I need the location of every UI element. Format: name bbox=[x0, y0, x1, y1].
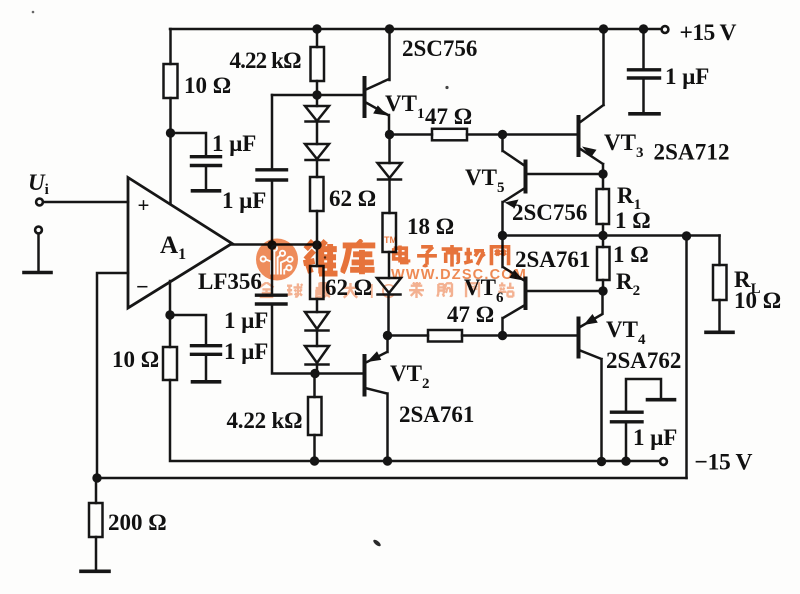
node R2 bottom / VT6 base / VT4 emitter bbox=[598, 286, 607, 295]
ground under C-A bbox=[193, 189, 220, 193]
wire D1-D2 bbox=[316, 122, 319, 144]
arrow VT1 emitter bbox=[373, 105, 387, 115]
node bias mid bbox=[312, 240, 321, 249]
svg-text:1 μF: 1 μF bbox=[665, 64, 709, 89]
transistor VT5 emitter bbox=[503, 188, 526, 236]
wire cap F bottom to -15 rail bbox=[625, 422, 628, 461]
node VT1 base row bbox=[312, 90, 321, 99]
node C mid output bbox=[267, 240, 276, 249]
svg-text:10 Ω: 10 Ω bbox=[734, 288, 781, 313]
diode D2 bbox=[305, 144, 329, 160]
svg-text:1 Ω: 1 Ω bbox=[615, 208, 651, 233]
scan speck bottom middle bbox=[372, 539, 382, 548]
svg-text:1 Ω: 1 Ω bbox=[613, 242, 649, 267]
node VT2 emitter / 47 lower bbox=[383, 331, 392, 340]
resistor 4.22kohm top bbox=[311, 47, 325, 81]
wire 47 lower to VT4 base bbox=[462, 334, 577, 337]
transistor Q VT1 bar bbox=[363, 78, 367, 116]
wire V- pin of op-amp bbox=[169, 281, 172, 315]
svg-text:TM: TM bbox=[384, 235, 397, 245]
resistor RL bbox=[713, 265, 727, 300]
wire VT5 base bbox=[527, 173, 603, 176]
diode D-B bbox=[377, 278, 401, 295]
terminal Ui bbox=[36, 199, 43, 206]
transistor VT1 emitter bbox=[365, 102, 389, 135]
wire D-A to 18ohm bbox=[388, 180, 391, 213]
wire VT1 base row bbox=[272, 94, 363, 97]
arrow VT3 emitter (PNP, toward bar) bbox=[582, 147, 597, 158]
svg-text:VT5: VT5 bbox=[465, 165, 504, 196]
node VT1 emitter / 47ohm bbox=[385, 130, 394, 139]
svg-text:VT3: VT3 bbox=[604, 130, 643, 161]
svg-text:I: I bbox=[369, 281, 375, 303]
svg-text:4.22 kΩ: 4.22 kΩ bbox=[227, 408, 303, 433]
scan speck left margin bbox=[32, 11, 35, 14]
transistor VT5 collector bbox=[503, 135, 526, 167]
svg-text:R2: R2 bbox=[616, 269, 640, 299]
svg-text:WWW.DZSC.COM: WWW.DZSC.COM bbox=[391, 267, 527, 283]
arrow VT6 emitter (PNP toward bar) bbox=[509, 270, 523, 281]
wire to capacitor C-D bbox=[170, 315, 206, 345]
node VT2 base row / 4.22k lower bbox=[310, 369, 319, 378]
wire to 4.22k lower bbox=[313, 374, 316, 398]
node 47ohm/VT5 collector/VT3 base bbox=[498, 130, 507, 139]
svg-text:VT2: VT2 bbox=[390, 361, 429, 392]
scan speck near 10ohm label bbox=[445, 86, 448, 89]
transistor VT3 emitter bbox=[579, 148, 603, 174]
node rail/4.22k bbox=[312, 24, 321, 33]
transistor VT1 collector bbox=[365, 29, 390, 90]
resistor 47ohm top bbox=[432, 129, 467, 141]
svg-text:62 Ω: 62 Ω bbox=[329, 186, 376, 211]
node feedback/200ohm bbox=[92, 473, 101, 482]
node 4.22k on rail bbox=[310, 456, 319, 465]
node VT6 collector / 47ohm lower / VT4 base bbox=[498, 331, 507, 340]
wire output to RL bbox=[718, 236, 721, 266]
svg-text:200 Ω: 200 Ω bbox=[108, 510, 167, 535]
transistor VT4 emitter bbox=[580, 291, 603, 327]
transistor VT3 bar bbox=[577, 117, 581, 155]
svg-text:−: − bbox=[136, 274, 149, 299]
ground under C-D bbox=[193, 380, 220, 384]
diode D1 bbox=[305, 106, 329, 122]
resistor 10ohm top-left bbox=[164, 64, 178, 98]
wire cap A to ground bbox=[205, 166, 208, 190]
resistor 10ohm lower bbox=[163, 347, 177, 380]
wire D2 to 62ohm bbox=[316, 161, 319, 178]
wire D4 to VT2 base row bbox=[316, 365, 319, 374]
wire top-left drop to R 10ohm bbox=[169, 29, 172, 64]
wire 62ohm to op-amp output node bbox=[316, 211, 319, 245]
transistor VT2 emitter bbox=[365, 336, 388, 364]
wire drop rail to 4.22k bbox=[316, 29, 319, 47]
transistor VT3 collector bbox=[579, 29, 604, 123]
node cap E rail bbox=[639, 24, 648, 33]
wire cap E to ground bbox=[642, 78, 645, 112]
svg-text:10 Ω: 10 Ω bbox=[112, 347, 159, 372]
transistor VT6 emitter bbox=[503, 236, 526, 282]
wire D-B to lower 47 row bbox=[387, 296, 390, 336]
capacitor 1uF (C-A) bbox=[192, 157, 221, 166]
wire 10ohm lower to -15 rail bbox=[170, 380, 660, 461]
svg-text:VT4: VT4 bbox=[606, 317, 646, 348]
wire 4.22k lower to -15 rail bbox=[313, 435, 316, 461]
wire lower 47 row bbox=[388, 334, 429, 337]
resistor R2 bbox=[597, 247, 610, 280]
arrow VT2 emitter (PNP toward bar) bbox=[367, 351, 381, 362]
ground under RL bbox=[706, 330, 733, 334]
svg-text:2SA761: 2SA761 bbox=[399, 402, 474, 427]
transistor VT4 bar bbox=[577, 319, 581, 357]
terminal Ui ground side bbox=[35, 227, 42, 234]
transistor VT2 collector bbox=[365, 388, 388, 461]
node cap F rail bbox=[621, 457, 630, 466]
node VT2 collector rail bbox=[383, 456, 392, 465]
wire 200ohm leads bbox=[95, 478, 98, 570]
capacitor 1uF (C-B) bbox=[257, 170, 287, 180]
svg-text:VT1: VT1 bbox=[385, 91, 424, 122]
wire R1 leads bbox=[602, 178, 605, 236]
ground under C-E bbox=[630, 112, 659, 116]
capacitor 1uF (C-D) bbox=[192, 346, 221, 355]
node output feedback tap bbox=[682, 231, 691, 240]
svg-text:2SC756: 2SC756 bbox=[512, 200, 587, 225]
arrow VT5 emitter (NPN, outward) bbox=[505, 200, 519, 209]
transistor VT5 bar bbox=[524, 162, 528, 192]
node VT4 collector rail bbox=[597, 457, 606, 466]
svg-text:47 Ω: 47 Ω bbox=[425, 104, 472, 129]
ground under 200ohm bbox=[81, 569, 109, 573]
watermark big text wei ku bbox=[303, 241, 337, 274]
ground under input terminal bbox=[24, 271, 51, 275]
svg-text:1 μF: 1 μF bbox=[224, 339, 268, 364]
resistor R1 bbox=[597, 189, 610, 224]
diode D-A bbox=[378, 163, 402, 180]
node V- bypass junction bbox=[165, 310, 174, 319]
capacitor 1uF (C-E) bbox=[629, 70, 660, 78]
node output row R1R2 bbox=[598, 231, 607, 240]
watermark slogan row bbox=[259, 282, 514, 298]
wire op-amp output bbox=[232, 243, 317, 246]
transistor VT6 collector bbox=[503, 305, 526, 336]
watermark logo disc bbox=[256, 239, 298, 281]
arrow VT4 emitter (PNP toward bar) bbox=[584, 314, 598, 325]
wire C-C down to VT2 base row bbox=[272, 304, 363, 374]
wire R2 leads bbox=[602, 236, 605, 292]
wire V+ pin of op-amp bbox=[169, 98, 172, 204]
wire feedback bottom row bbox=[97, 477, 687, 480]
wire left bias branch upper bbox=[271, 95, 274, 169]
wire feedback right riser bbox=[685, 236, 688, 478]
wire VT6 base bbox=[527, 290, 603, 293]
svg-text:A1: A1 bbox=[160, 232, 186, 263]
svg-text:4.22 kΩ: 4.22 kΩ bbox=[230, 48, 302, 73]
node VT1 collector rail bbox=[385, 24, 394, 33]
wire cap D to ground bbox=[205, 355, 208, 381]
svg-text:2SC756: 2SC756 bbox=[402, 36, 477, 61]
svg-text:1 μF: 1 μF bbox=[212, 131, 256, 156]
wire to capacitor C-A bbox=[171, 133, 207, 156]
wire 18ohm to D-B bbox=[388, 252, 391, 278]
resistor 62ohm upper bbox=[310, 177, 324, 211]
resistor 47ohm lower bbox=[428, 330, 462, 342]
resistor 200ohm bbox=[89, 503, 103, 537]
ground of cap F bbox=[648, 398, 675, 402]
op-amp A1 triangle bbox=[128, 178, 232, 309]
wire output row bbox=[503, 234, 720, 237]
terminal +15V bbox=[662, 26, 669, 33]
wire RL to ground bbox=[718, 300, 721, 331]
svg-text:10 Ω: 10 Ω bbox=[184, 73, 231, 98]
node output row left bbox=[498, 231, 507, 240]
watermark big text dian zi shi chang wang bbox=[394, 245, 409, 262]
wire 4.22k to node bbox=[316, 81, 319, 95]
node V+ bypass junction bbox=[166, 128, 175, 137]
wire rail to cap E bbox=[642, 29, 645, 69]
wire terminal to ground bbox=[37, 234, 40, 271]
svg-text:C: C bbox=[381, 281, 395, 303]
transistor VT4 collector bbox=[579, 350, 602, 462]
svg-text:LF356: LF356 bbox=[198, 269, 262, 294]
wire V- to 10ohm lower bbox=[169, 315, 172, 347]
svg-text:47 Ω: 47 Ω bbox=[447, 302, 494, 327]
wire 18ohm column top bbox=[388, 135, 391, 164]
wire diode column D1-D2 bbox=[316, 95, 319, 106]
transistor VT6 bar bbox=[524, 279, 528, 309]
capacitor 1uF (C-F) bbox=[612, 412, 643, 422]
svg-text:+15 V: +15 V bbox=[680, 20, 737, 46]
terminal -15V bbox=[660, 458, 667, 465]
svg-text:2SA712: 2SA712 bbox=[654, 140, 730, 165]
wire +15V top rail bbox=[170, 28, 661, 31]
wire to 62ohm lower bbox=[316, 245, 319, 266]
scan speck mid bbox=[324, 256, 326, 258]
watermark logo circuit tree bbox=[261, 246, 293, 275]
svg-text:−15 V: −15 V bbox=[695, 450, 753, 476]
svg-text:Ui: Ui bbox=[28, 170, 49, 198]
svg-text:1 μF: 1 μF bbox=[222, 188, 266, 213]
resistor 18ohm bbox=[383, 213, 397, 252]
resistor 62ohm lower bbox=[310, 266, 324, 299]
wire -input bbox=[97, 273, 128, 478]
wire cap F top to ground bbox=[626, 379, 661, 412]
wire 62ohm to D3 bbox=[316, 299, 319, 312]
wire VT3 base bbox=[503, 133, 578, 136]
svg-text:2SA762: 2SA762 bbox=[606, 348, 681, 373]
wire D3-D4 bbox=[316, 331, 319, 346]
node VT3 emitter / R1 / VT5 base bbox=[598, 169, 607, 178]
capacitor 1uF (C-C) bbox=[257, 295, 287, 304]
diode D3 bbox=[305, 312, 329, 331]
svg-text:1 μF: 1 μF bbox=[224, 308, 268, 333]
wire 47ohm to node bbox=[467, 133, 503, 136]
wire output node down to C-C bbox=[271, 245, 274, 295]
wire 47ohm row top bbox=[390, 133, 433, 136]
resistor 4.22kohm lower bbox=[308, 397, 322, 435]
svg-text:18 Ω: 18 Ω bbox=[407, 214, 454, 239]
diode D4 bbox=[305, 346, 329, 365]
transistor VT2 bar bbox=[363, 356, 367, 395]
svg-text:1 μF: 1 μF bbox=[633, 425, 677, 450]
svg-text:+: + bbox=[138, 193, 150, 217]
wire Ui to +input bbox=[43, 201, 128, 204]
wire C-B to output node bbox=[271, 180, 274, 245]
node VT3 collector rail bbox=[599, 24, 608, 33]
